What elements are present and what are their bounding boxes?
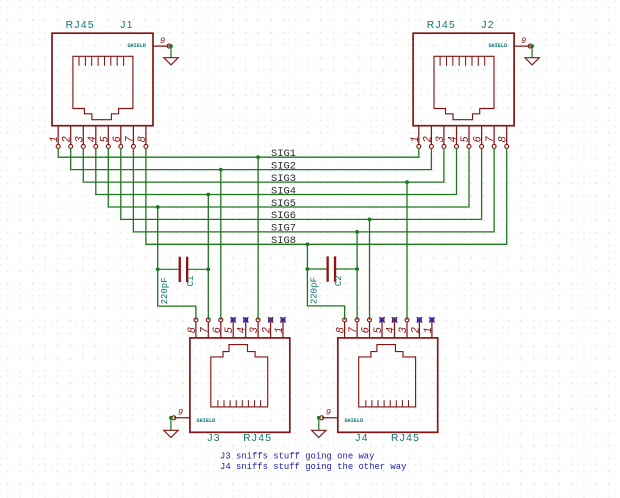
wire SIG6: J1 pin 6 to J2 pin 6 xyxy=(121,148,482,219)
wire: SIG7 down to C2 right and J4 pin 7 xyxy=(356,232,358,320)
no-connect X on J4 pin 5 xyxy=(379,317,384,322)
junction at J2 shield / ground xyxy=(530,44,534,48)
J2 pin 2 xyxy=(430,126,432,145)
J2 pin 6 xyxy=(481,126,483,145)
svg-text:9: 9 xyxy=(160,36,165,46)
J3 pin 1 xyxy=(282,322,284,338)
svg-text:3: 3 xyxy=(435,136,447,142)
svg-text:1: 1 xyxy=(274,327,286,333)
junction on SIG5 xyxy=(156,205,160,209)
J4 pin 1 xyxy=(431,322,433,338)
svg-text:2: 2 xyxy=(62,136,74,142)
svg-text:SIG2: SIG2 xyxy=(271,160,296,172)
svg-text:C1: C1 xyxy=(186,276,196,287)
junction at J1 shield / ground xyxy=(169,44,173,48)
svg-text:9: 9 xyxy=(326,408,331,418)
svg-text:7: 7 xyxy=(348,326,360,333)
svg-text:5: 5 xyxy=(224,326,236,333)
svg-text:9: 9 xyxy=(178,408,183,418)
ground symbol at J1 xyxy=(170,48,172,58)
svg-text:4: 4 xyxy=(448,136,460,142)
J3 pin 7 xyxy=(207,322,209,338)
svg-text:RJ45: RJ45 xyxy=(391,433,420,444)
ground symbol at J3 xyxy=(170,419,172,430)
svg-text:2: 2 xyxy=(410,327,422,333)
J2 pin 8 xyxy=(506,126,508,145)
J2 jack contact teeth xyxy=(440,56,485,66)
no-connect X on J4 pin 4 xyxy=(392,317,397,322)
J3 pin 4 xyxy=(245,322,247,338)
J4 jack contact teeth xyxy=(366,400,409,407)
svg-text:RJ45: RJ45 xyxy=(427,20,456,31)
junction on SIG4 xyxy=(206,193,210,197)
wire SIG4: J1 pin 4 to J2 pin 4 xyxy=(96,148,457,195)
J1 pin 1 xyxy=(57,126,59,145)
svg-text:3: 3 xyxy=(398,327,410,333)
junction on SIG7 xyxy=(355,230,359,234)
J2 jack opening symbol xyxy=(434,56,494,119)
wire SIG8: J1 pin 8 to J2 pin 8 xyxy=(146,148,507,244)
wire: SIG8 down to C2 left and J4 pin 8 xyxy=(307,244,344,320)
no-connect X on J4 pin 1 xyxy=(429,317,434,322)
no-connect X on J4 pin 2 xyxy=(417,317,422,322)
J3 pin 3 xyxy=(257,322,259,338)
junction C1 right xyxy=(206,267,210,271)
J4 pin 2 xyxy=(418,322,420,338)
connector J3 (RJ45) body xyxy=(190,338,290,432)
svg-text:SHIELD: SHIELD xyxy=(344,418,363,424)
wire: SIG4 down to C1 right and J3 pin 7 xyxy=(207,195,209,320)
svg-text:6: 6 xyxy=(112,136,124,143)
J1 pin 4 xyxy=(95,126,97,145)
svg-text:6: 6 xyxy=(361,326,373,333)
svg-text:J4 sniffs stuff going the othe: J4 sniffs stuff going the other way xyxy=(220,462,407,472)
svg-text:2: 2 xyxy=(262,327,274,333)
svg-text:8: 8 xyxy=(498,136,510,142)
svg-text:SIG5: SIG5 xyxy=(271,198,296,210)
wire SIG1: J1 pin 1 to J2 pin 1 xyxy=(58,148,419,157)
svg-text:1: 1 xyxy=(49,136,61,142)
svg-text:6: 6 xyxy=(473,136,485,143)
wire SIG7: J1 pin 7 to J2 pin 7 xyxy=(133,148,494,232)
no-connect X on J3 pin 5 xyxy=(231,317,236,322)
svg-text:9: 9 xyxy=(521,36,526,46)
svg-text:6: 6 xyxy=(212,326,224,333)
wire: SIG3 down to J4 pin 3 xyxy=(406,182,408,320)
svg-text:SHIELD: SHIELD xyxy=(127,43,146,49)
J2 pin 3 xyxy=(443,126,445,145)
svg-text:8: 8 xyxy=(137,136,149,142)
svg-text:SIG3: SIG3 xyxy=(271,173,296,185)
J1 pin 7 xyxy=(132,126,134,145)
J3 jack opening symbol xyxy=(211,345,268,407)
J3 pin 2 xyxy=(270,322,272,338)
svg-text:4: 4 xyxy=(386,327,398,333)
svg-text:SHIELD: SHIELD xyxy=(197,418,216,424)
svg-text:5: 5 xyxy=(460,136,472,143)
J3 pin 9 SHIELD stub xyxy=(174,417,190,419)
no-connect X on J3 pin 4 xyxy=(243,317,248,322)
svg-text:SIG4: SIG4 xyxy=(271,185,296,197)
J2 pin 4 xyxy=(456,126,458,145)
svg-text:5: 5 xyxy=(99,136,111,143)
svg-text:SIG1: SIG1 xyxy=(271,148,296,160)
junction C2 right xyxy=(355,267,359,271)
wire: SIG5 down to C1 left and J3 pin 8 xyxy=(158,207,196,320)
svg-text:J2: J2 xyxy=(481,20,494,31)
ground symbol at J4 xyxy=(318,419,320,430)
J1 pin 5 xyxy=(107,126,109,145)
svg-text:220pF: 220pF xyxy=(160,277,170,304)
junction on SIG6 xyxy=(368,218,372,222)
junction C2 left xyxy=(306,267,310,271)
J1 pin 8 xyxy=(145,126,147,145)
junction C1 left xyxy=(156,267,160,271)
J3 jack contact teeth xyxy=(218,400,261,407)
svg-text:8: 8 xyxy=(336,327,348,333)
J4 pin 9 SHIELD stub xyxy=(322,417,338,419)
J4 pin 6 xyxy=(369,322,371,338)
svg-text:220pF: 220pF xyxy=(310,277,320,304)
svg-text:RJ45: RJ45 xyxy=(66,20,95,31)
svg-text:SHIELD: SHIELD xyxy=(488,43,507,49)
wire SIG2: J1 pin 2 to J2 pin 2 xyxy=(71,148,432,170)
J1 pin 9 SHIELD stub xyxy=(153,45,169,47)
J4 pin 5 xyxy=(381,322,383,338)
no-connect X on J3 pin 2 xyxy=(268,317,273,322)
J2 pin 1 xyxy=(418,126,420,145)
junction at J4 shield / ground xyxy=(317,416,321,420)
J2 pin 5 xyxy=(468,126,470,145)
wire: SIG6 down to J4 pin 6 xyxy=(369,219,371,320)
capacitor C2 xyxy=(307,268,327,270)
svg-text:5: 5 xyxy=(373,326,385,333)
J2 pin 9 SHIELD stub xyxy=(514,45,530,47)
no-connect X on J3 pin 1 xyxy=(280,317,285,322)
svg-text:4: 4 xyxy=(87,136,99,142)
J3 pin 5 xyxy=(232,322,234,338)
junction on SIG3 xyxy=(405,180,409,184)
J1 jack opening symbol xyxy=(73,56,133,119)
wire SIG3: J1 pin 3 to J2 pin 3 xyxy=(83,148,444,182)
capacitor C1 xyxy=(158,268,180,270)
J1 pin 6 xyxy=(120,126,122,145)
ground symbol at J2 xyxy=(531,48,533,58)
J4 pin 3 xyxy=(406,322,408,338)
svg-text:C2: C2 xyxy=(334,275,344,286)
J1 pin 2 xyxy=(70,126,72,145)
J4 pin 7 xyxy=(356,322,358,338)
J3 pin 8 xyxy=(195,322,197,338)
svg-text:SIG7: SIG7 xyxy=(271,223,296,235)
svg-text:4: 4 xyxy=(237,327,249,333)
wire SIG5: J1 pin 5 to J2 pin 5 xyxy=(108,148,469,207)
J4 pin 8 xyxy=(344,322,346,338)
junction on SIG8 xyxy=(306,242,310,246)
J3 pin 6 xyxy=(220,322,222,338)
svg-text:3: 3 xyxy=(249,327,261,333)
svg-text:J4: J4 xyxy=(355,433,368,444)
J4 jack opening symbol xyxy=(359,345,416,407)
junction on SIG2 xyxy=(219,168,223,172)
connector J1 (RJ45) body xyxy=(52,33,153,126)
J2 pin 7 xyxy=(493,126,495,145)
svg-text:8: 8 xyxy=(187,327,199,333)
svg-text:3: 3 xyxy=(74,136,86,142)
svg-text:J3: J3 xyxy=(207,433,220,444)
svg-text:SIG6: SIG6 xyxy=(271,210,296,222)
wire: SIG2 down to J3 pin 6 xyxy=(220,170,222,320)
svg-text:7: 7 xyxy=(199,326,211,333)
junction at J3 shield / ground xyxy=(169,416,173,420)
connector J4 (RJ45) body xyxy=(338,338,438,432)
svg-text:7: 7 xyxy=(124,136,136,143)
svg-text:1: 1 xyxy=(410,136,422,142)
wire: SIG1 down to J3 pin 3 xyxy=(257,157,259,320)
J4 pin 4 xyxy=(394,322,396,338)
svg-text:J3 sniffs stuff going one way: J3 sniffs stuff going one way xyxy=(220,451,375,461)
svg-text:2: 2 xyxy=(422,136,434,142)
J1 jack contact teeth xyxy=(79,56,124,66)
svg-text:7: 7 xyxy=(485,136,497,143)
junction on SIG1 xyxy=(256,155,260,159)
svg-text:1: 1 xyxy=(423,327,435,333)
svg-text:SIG8: SIG8 xyxy=(271,235,296,247)
connector J2 (RJ45) body xyxy=(413,33,514,126)
svg-text:RJ45: RJ45 xyxy=(243,433,272,444)
svg-text:J1: J1 xyxy=(120,20,133,31)
J1 pin 3 xyxy=(82,126,84,145)
